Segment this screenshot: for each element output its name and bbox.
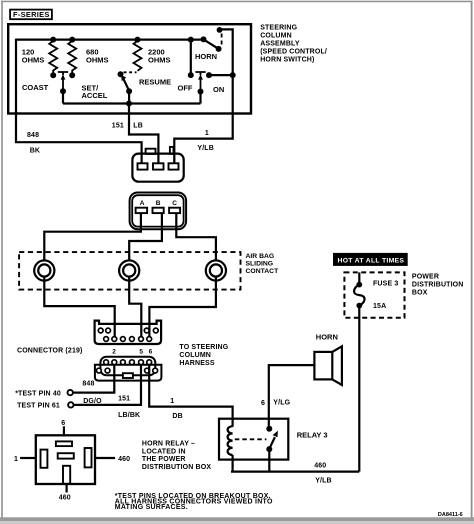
svg-text:(SPEED CONTROL/: (SPEED CONTROL/	[260, 49, 327, 56]
sliding contact ring 1	[34, 260, 54, 280]
svg-text:COLUMN: COLUMN	[260, 33, 292, 40]
label horn relay located in the power distribution box	[142, 441, 211, 471]
steering column assembly box	[8, 24, 251, 113]
sliding contact ring 2	[119, 260, 139, 280]
svg-text:HORN: HORN	[195, 52, 217, 61]
F-SERIES title box	[10, 10, 52, 20]
svg-text:DISTRIBUTION BOX: DISTRIBUTION BOX	[142, 464, 211, 471]
svg-text:OFF: OFF	[178, 84, 193, 93]
resistor 2200 OHMS	[134, 41, 171, 71]
svg-text:CONNECTOR (219): CONNECTOR (219)	[17, 347, 83, 354]
svg-text:848: 848	[82, 380, 94, 387]
label steering column assembly	[260, 25, 327, 64]
wire 848 BK: rail left corner down, out of box, to connector pin 1	[16, 39, 142, 164]
svg-text:HORN: HORN	[316, 333, 338, 342]
svg-text:RELAY 3: RELAY 3	[297, 430, 328, 439]
connector A B C (air bag contact side)	[130, 193, 187, 230]
svg-text:LOCATED IN: LOCATED IN	[142, 449, 186, 456]
horn relay connector block	[36, 420, 95, 484]
relay dashed actuator link	[235, 438, 267, 440]
wire OFF contact drop	[190, 40, 192, 76]
wire coil bottom to 460 bus	[232, 455, 234, 472]
wire 151 LB/BK to test pin 61	[74, 365, 141, 405]
svg-text:OHMS: OHMS	[86, 56, 109, 65]
wire pin C to sliding contact 3	[176, 213, 216, 261]
wire ON contact to right bus	[209, 74, 233, 76]
svg-text:Y/LB: Y/LB	[315, 477, 332, 484]
svg-text:DG/O: DG/O	[83, 398, 102, 405]
svg-text:DA8411-6: DA8411-6	[438, 512, 463, 518]
labels 6 Y/LG	[261, 399, 291, 407]
wire stub 460 (relay block right)	[95, 456, 130, 463]
svg-text:CONTACT: CONTACT	[246, 268, 280, 275]
svg-text:ASSEMBLY: ASSEMBLY	[260, 41, 300, 48]
labels 460 Y/LB	[314, 462, 332, 484]
wire relay contact to 460 bus	[268, 449, 270, 472]
connector plug (column side)	[132, 147, 183, 182]
svg-text:848: 848	[27, 132, 39, 139]
svg-text:1: 1	[14, 456, 18, 463]
svg-text:MATING SURFACES.: MATING SURFACES.	[115, 504, 188, 511]
wire 6 Y/LG horn to relay contact	[269, 365, 315, 429]
svg-text:STEERING: STEERING	[260, 25, 297, 32]
relay contacts and armature	[266, 426, 278, 452]
svg-text:TO STEERING: TO STEERING	[179, 344, 228, 351]
wire bottom switch rail	[63, 102, 201, 104]
svg-text:F-SERIES: F-SERIES	[13, 10, 50, 19]
wire 848 to test pin 40	[73, 365, 114, 393]
label to steering column harness	[179, 344, 228, 367]
svg-text:5: 5	[139, 348, 143, 355]
test pin 40	[15, 390, 73, 397]
sliding contact ring 3	[206, 260, 226, 280]
junction dots top section	[50, 27, 236, 107]
fuse 3 15A	[354, 272, 398, 309]
svg-text:ON: ON	[213, 85, 224, 94]
svg-text:Y/LB: Y/LB	[197, 145, 214, 152]
wire top rail	[16, 38, 204, 40]
svg-text:OHMS: OHMS	[22, 56, 45, 65]
hot at all times banner	[333, 253, 408, 266]
note test pins	[115, 493, 273, 511]
svg-text:*TEST PIN 40: *TEST PIN 40	[15, 390, 61, 397]
connector 219 body	[95, 321, 162, 344]
label air bag sliding contact	[246, 253, 280, 275]
svg-text:460: 460	[59, 495, 71, 502]
svg-text:6: 6	[261, 400, 265, 407]
label power distribution box	[412, 274, 464, 297]
svg-text:THE POWER: THE POWER	[142, 456, 186, 463]
wire 460 Y/LB bus	[231, 471, 359, 473]
svg-text:DISTRIBUTION: DISTRIBUTION	[412, 281, 464, 288]
air bag sliding contact dashed box	[19, 252, 240, 290]
svg-text:A: A	[140, 200, 145, 207]
svg-text:B: B	[156, 200, 161, 207]
svg-text:6: 6	[149, 348, 153, 355]
label wire 848 BK	[27, 132, 40, 154]
wire stub 460 (relay block bottom)	[59, 484, 71, 502]
svg-text:HARNESS: HARNESS	[179, 360, 214, 367]
wire pin A to sliding contact 1	[44, 213, 141, 261]
relay 3 box	[219, 419, 288, 460]
svg-text:BK: BK	[30, 148, 40, 155]
svg-text:1: 1	[205, 130, 209, 137]
svg-text:POWER: POWER	[412, 274, 439, 281]
wire 1 DB to relay coil	[149, 365, 232, 427]
svg-text:LB: LB	[133, 123, 143, 130]
svg-text:151: 151	[118, 396, 130, 403]
svg-text:460: 460	[118, 456, 130, 463]
wire stub 1 (relay block left)	[14, 456, 36, 463]
horn speaker	[314, 333, 342, 385]
svg-text:COAST: COAST	[22, 83, 49, 92]
switch OFF / ON	[178, 72, 225, 104]
wire contact 1 to connector 219 hole 2	[44, 276, 114, 336]
label wire 1 Y/LB	[197, 130, 214, 152]
svg-text:LB/BK: LB/BK	[118, 412, 140, 419]
svg-text:ACCEL: ACCEL	[82, 91, 108, 100]
svg-text:DB: DB	[172, 413, 182, 420]
svg-text:460: 460	[314, 462, 326, 469]
switch HORN	[195, 34, 222, 61]
label wire 151 LB	[112, 123, 143, 130]
power distribution box dashed outline	[344, 272, 404, 317]
svg-text:BOX: BOX	[412, 289, 428, 296]
svg-text:COLUMN: COLUMN	[179, 352, 211, 359]
wire pin B to sliding contact 2	[129, 213, 162, 261]
svg-text:2: 2	[112, 348, 116, 355]
test pin 61	[17, 402, 73, 409]
svg-text:6: 6	[61, 420, 65, 427]
svg-text:HORN RELAY –: HORN RELAY –	[142, 441, 195, 448]
wire horn contact to Y/LB drop, out of box, to connector pin C	[174, 29, 232, 163]
svg-text:Y/LG: Y/LG	[273, 399, 290, 406]
svg-text:C: C	[172, 200, 177, 207]
wire contact 2 to connector 219 hole 5	[129, 276, 141, 336]
svg-text:AIR BAG: AIR BAG	[246, 253, 275, 260]
switch RESUME	[121, 72, 171, 103]
resistor 120 OHMS	[22, 41, 57, 75]
wire contact 3 to connector 219 hole 6	[149, 276, 216, 336]
resistor 680 OHMS	[68, 41, 108, 75]
svg-text:SLIDING: SLIDING	[246, 261, 274, 268]
svg-text:15A: 15A	[373, 303, 386, 310]
wire fuse to 460 bus	[358, 306, 360, 472]
svg-text:1: 1	[170, 398, 174, 405]
svg-text:TEST PIN 61: TEST PIN 61	[17, 403, 60, 410]
svg-text:RESUME: RESUME	[139, 78, 171, 87]
relay coil	[228, 426, 233, 455]
svg-text:FUSE 3: FUSE 3	[373, 281, 398, 288]
svg-text:HOT AT ALL TIMES: HOT AT ALL TIMES	[338, 257, 405, 264]
switch COAST / SET-ACCEL	[22, 72, 108, 104]
wire 151 LB drop to connector pin B	[129, 104, 158, 164]
harness connector body (mating half)	[95, 357, 161, 381]
svg-text:OHMS: OHMS	[148, 56, 171, 65]
svg-text:151: 151	[112, 123, 124, 130]
labels pins 2 5 6	[112, 348, 152, 355]
svg-text:HORN SWITCH): HORN SWITCH)	[260, 57, 314, 64]
